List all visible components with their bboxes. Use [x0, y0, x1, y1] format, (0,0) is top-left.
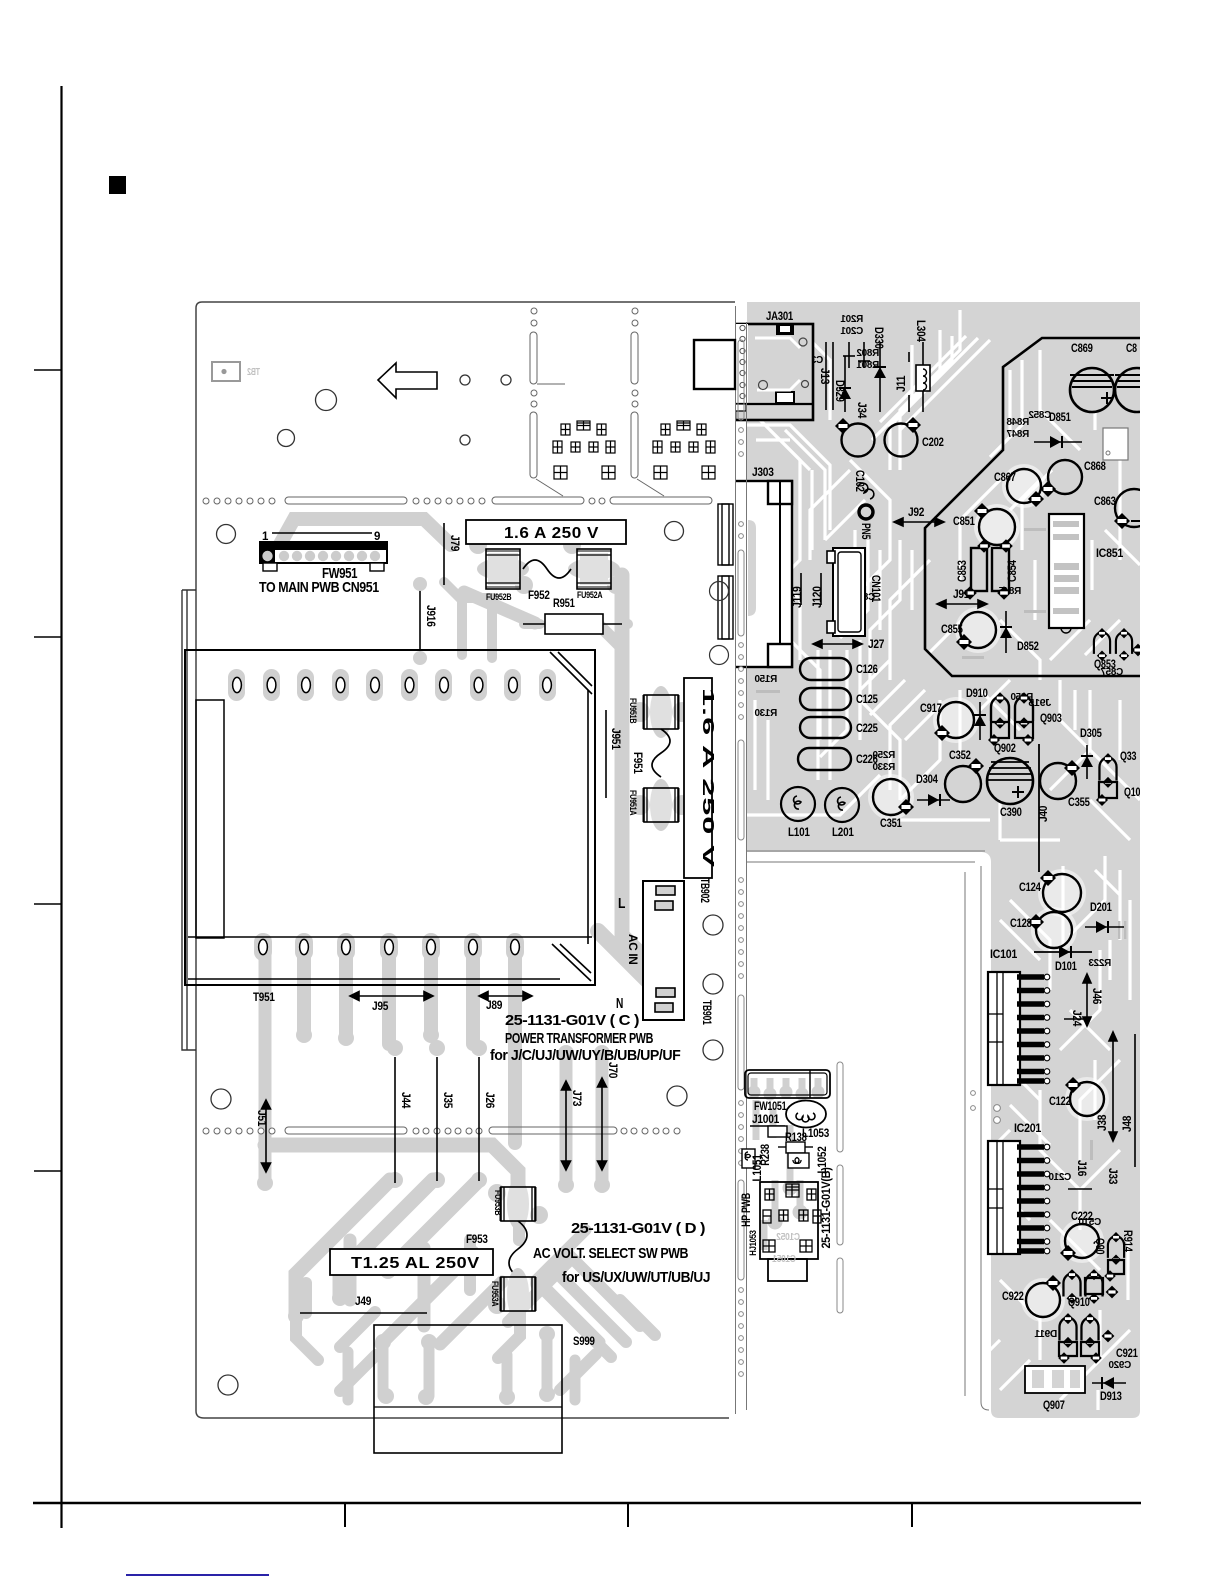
- svg-text:Q33: Q33: [1120, 751, 1136, 763]
- svg-text:J27: J27: [868, 639, 884, 651]
- svg-text:C855: C855: [941, 624, 963, 636]
- J13 leads: [825, 342, 827, 410]
- white routing channels on pour (approximation): [747, 310, 1140, 1410]
- svg-text:POWER TRANSFORMER PWB: POWER TRANSFORMER PWB: [505, 1030, 653, 1047]
- svg-text:J70: J70: [606, 1062, 618, 1078]
- fuse clip FU953B: [500, 1178, 536, 1230]
- svg-text:J11: J11: [896, 375, 908, 392]
- svg-text:F951: F951: [631, 752, 643, 774]
- fuse clip FU951B: [643, 686, 679, 738]
- svg-text:C126: C126: [856, 664, 878, 676]
- J46 arrow: [1083, 974, 1091, 1026]
- svg-text:C201: C201: [840, 326, 863, 337]
- transformer pad halos: [228, 669, 556, 961]
- svg-text:F953: F953: [466, 1234, 488, 1246]
- C128: [1036, 912, 1072, 948]
- Q853 transistors: [1094, 628, 1110, 661]
- D852: [1005, 611, 1007, 653]
- R238: [786, 1142, 805, 1153]
- C351: [873, 779, 909, 815]
- Q909 cluster: [1059, 1313, 1076, 1348]
- svg-text:C852: C852: [1028, 410, 1051, 421]
- arrow J70: [598, 1078, 607, 1170]
- svg-text:L201: L201: [832, 827, 854, 839]
- transformer pads bottom row: [259, 939, 268, 954]
- svg-text:1: 1: [262, 531, 269, 543]
- J40 line: [1038, 744, 1040, 872]
- svg-text:PN5: PN5: [859, 523, 871, 540]
- TB2 marker box: [212, 362, 240, 381]
- svg-text:Q902: Q902: [994, 743, 1016, 755]
- svg-text:1.6 A 250 V: 1.6 A 250 V: [504, 525, 599, 542]
- svg-text:C390: C390: [1000, 807, 1022, 819]
- HJ1053 headphone jack: [760, 1182, 818, 1259]
- S999 switch: [374, 1325, 562, 1453]
- svg-text:J120: J120: [812, 586, 824, 608]
- J44 J35 J26: [394, 1057, 396, 1183]
- direction arrow: [378, 363, 437, 398]
- L1052: [788, 1153, 809, 1168]
- svg-text:FU951A: FU951A: [628, 790, 638, 816]
- svg-text:J38: J38: [1097, 1114, 1109, 1131]
- svg-text:R130: R130: [754, 708, 777, 719]
- svg-text:J34: J34: [855, 402, 867, 419]
- fuse rating box 1.6A 250V: [466, 520, 626, 544]
- svg-text:C226: C226: [856, 754, 878, 766]
- svg-text:C1052: C1052: [776, 1232, 800, 1243]
- svg-text:FU953A: FU953A: [490, 1281, 500, 1307]
- V-cut perforation rows/columns on left board: [203, 308, 680, 1134]
- crop-mark: left vertical rule: [60, 86, 62, 1528]
- jack slots near J303: [718, 504, 733, 639]
- svg-text:TB902: TB902: [698, 878, 710, 903]
- svg-text:C853: C853: [957, 560, 969, 582]
- C868: [1048, 460, 1082, 494]
- svg-text:Q910: Q910: [1068, 1297, 1090, 1309]
- L1051: [742, 1149, 755, 1168]
- J73 J70 arrows: [562, 1081, 571, 1170]
- Q902 Q903 transistor clusters: [991, 692, 1009, 729]
- C851: [979, 509, 1015, 545]
- svg-text:JA301: JA301: [766, 311, 794, 323]
- svg-text:J48: J48: [1122, 1115, 1134, 1132]
- J119 J120: [800, 573, 802, 605]
- Q33x Q10x: [1099, 753, 1116, 788]
- Q906 cluster: [1108, 1232, 1124, 1265]
- svg-text:C128: C128: [1010, 918, 1032, 930]
- svg-text:D913: D913: [1100, 1391, 1122, 1403]
- inductor L201: [825, 788, 859, 822]
- svg-text:D910: D910: [966, 688, 988, 700]
- svg-text:25-1131-G01V(B): 25-1131-G01V(B): [821, 1167, 833, 1249]
- gray traces on left board: [265, 519, 655, 1400]
- C853 / C854: [971, 548, 987, 591]
- AC IN terminal block: [643, 881, 684, 1020]
- svg-text:J79: J79: [448, 535, 460, 551]
- SMD IC white square: [1103, 428, 1128, 460]
- svg-text:C851: C851: [953, 516, 975, 528]
- transformer pads top row: [233, 677, 242, 692]
- C867: [1007, 469, 1041, 503]
- connector CN101: [827, 548, 865, 636]
- J51 arrow: [262, 1100, 271, 1172]
- svg-text:D305: D305: [1080, 728, 1102, 740]
- svg-text:J951: J951: [609, 728, 621, 750]
- svg-text:IC851: IC851: [1096, 548, 1124, 560]
- svg-text:Q907: Q907: [1043, 1400, 1065, 1412]
- D913: [1092, 1382, 1126, 1384]
- svg-text:25-1131-G01V ( C ): 25-1131-G01V ( C ): [505, 1012, 639, 1029]
- free circles on left board: [211, 375, 723, 1395]
- svg-text:C869: C869: [1071, 343, 1093, 355]
- RCA jack on left board (top): [694, 340, 735, 389]
- svg-text:J33: J33: [1106, 1168, 1118, 1184]
- R138: [768, 1126, 787, 1137]
- svg-text:C854: C854: [1007, 560, 1019, 582]
- svg-text:J916: J916: [424, 605, 436, 627]
- svg-text:C1051: C1051: [772, 1254, 796, 1265]
- J916: [419, 588, 421, 652]
- svg-text:HP PWB: HP PWB: [741, 1193, 753, 1227]
- svg-text:D330: D330: [872, 327, 884, 349]
- svg-text:R201: R201: [840, 314, 863, 325]
- left protrusion tab: [182, 590, 196, 1050]
- svg-text:AC IN: AC IN: [626, 934, 638, 965]
- svg-text:D101: D101: [1055, 961, 1077, 973]
- transformer T951: [185, 650, 595, 985]
- svg-text:L101: L101: [788, 827, 810, 839]
- solder pad clusters: [553, 421, 715, 479]
- FW1051 connector: [745, 1070, 830, 1098]
- svg-text:C355: C355: [1068, 797, 1090, 809]
- node J120 lead: [820, 573, 822, 605]
- svg-text:for US/UX/UW/UT/UB/UJ: for US/UX/UW/UT/UB/UJ: [562, 1269, 710, 1286]
- svg-text:R848: R848: [1006, 417, 1029, 428]
- connector JA301: [735, 324, 813, 420]
- svg-text:J91: J91: [953, 589, 970, 601]
- node J26 lead: [478, 1057, 480, 1181]
- node J35 lead: [436, 1057, 438, 1181]
- svg-text:1.6 A 250 V: 1.6 A 250 V: [699, 688, 716, 868]
- svg-text:C867: C867: [994, 472, 1016, 484]
- svg-text:Q90: Q90: [1093, 1238, 1105, 1254]
- J79: [443, 523, 445, 585]
- black square marker: [109, 176, 126, 194]
- svg-text:R150: R150: [754, 674, 777, 685]
- svg-text:T1.25 AL 250V: T1.25 AL 250V: [351, 1255, 480, 1272]
- Q907: [1025, 1366, 1085, 1393]
- svg-text:J26: J26: [483, 1092, 495, 1108]
- svg-text:J40: J40: [1038, 806, 1050, 822]
- svg-text:C124: C124: [1019, 882, 1041, 894]
- svg-text:R951: R951: [553, 598, 575, 610]
- svg-text:C210: C210: [1048, 1172, 1071, 1183]
- L1053: [786, 1101, 826, 1128]
- svg-text:R847: R847: [1006, 429, 1029, 440]
- C355: [1040, 763, 1076, 799]
- svg-text:C868: C868: [1084, 461, 1106, 473]
- svg-text:D201: D201: [1090, 902, 1112, 914]
- svg-text:TB2: TB2: [247, 367, 260, 378]
- svg-text:C921: C921: [1116, 1348, 1138, 1360]
- svg-text:J92: J92: [908, 507, 924, 519]
- C124: [1043, 874, 1081, 912]
- svg-text:D852: D852: [1017, 641, 1039, 653]
- C390 electrolytic: [987, 758, 1033, 804]
- svg-text:R223: R223: [1088, 958, 1111, 969]
- svg-text:J46: J46: [1090, 988, 1102, 1004]
- svg-text:Q10: Q10: [1124, 787, 1140, 799]
- svg-text:J73: J73: [570, 1090, 582, 1106]
- fuse clip FU952A: [568, 549, 620, 589]
- svg-text:HJ1053: HJ1053: [748, 1230, 758, 1256]
- shield outline polyline: [925, 338, 1140, 676]
- bottom rule: [33, 1502, 1141, 1505]
- svg-text:C102: C102: [853, 470, 865, 492]
- svg-text:L304: L304: [914, 320, 926, 342]
- svg-text:D304: D304: [916, 774, 938, 786]
- svg-text:TB901: TB901: [700, 1000, 712, 1025]
- svg-text:FU952B: FU952B: [486, 592, 512, 602]
- gray blobs at fuse clips / AC IN: [469, 536, 692, 1314]
- gray traces: [748, 1078, 824, 1250]
- svg-text:J35: J35: [441, 1092, 453, 1109]
- svg-text:IC101: IC101: [990, 949, 1018, 961]
- T1.25 rating box: [330, 1249, 493, 1275]
- svg-text:C225: C225: [856, 723, 878, 735]
- svg-text:R138: R138: [785, 1132, 807, 1144]
- svg-text:9: 9: [374, 531, 380, 543]
- svg-text:F952: F952: [528, 590, 550, 602]
- J38 J48: [1109, 1032, 1117, 1141]
- Q910 cluster: [1063, 1269, 1080, 1304]
- capacitor C202: [885, 424, 918, 457]
- ground pour polygon: [747, 302, 1140, 1418]
- svg-text:C122: C122: [1049, 1096, 1071, 1108]
- J951: [605, 710, 607, 798]
- svg-text:D851: D851: [1049, 412, 1071, 424]
- svg-text:J1001: J1001: [752, 1114, 780, 1126]
- capacitor C854: [992, 548, 1009, 591]
- svg-text:J89: J89: [486, 1000, 502, 1012]
- svg-text:N: N: [616, 995, 623, 1012]
- svg-text:for J/C/UJ/UW/UY/B/UB/UP/UF: for J/C/UJ/UW/UY/B/UB/UP/UF: [490, 1047, 681, 1064]
- svg-text:J95: J95: [372, 1001, 389, 1013]
- svg-text:J13: J13: [818, 368, 830, 384]
- fuse clip FU953A: [500, 1268, 536, 1320]
- connector J303: [734, 481, 792, 667]
- C122: [1070, 1082, 1104, 1116]
- svg-text:Q903: Q903: [1040, 713, 1062, 725]
- vertical fuse rating box: [684, 678, 712, 878]
- svg-text:C351: C351: [880, 818, 902, 830]
- fuse clip FU951A: [643, 779, 679, 831]
- svg-text:J44: J44: [399, 1092, 411, 1109]
- svg-text:CN101: CN101: [869, 575, 881, 603]
- gray pads: [257, 996, 659, 1405]
- svg-text:C125: C125: [856, 694, 878, 706]
- svg-text:T951: T951: [253, 992, 275, 1004]
- svg-text:FU952A: FU952A: [577, 590, 603, 600]
- svg-text:IC201: IC201: [1014, 1123, 1042, 1135]
- svg-text:D911: D911: [1034, 1329, 1057, 1340]
- svg-text:C863: C863: [1094, 496, 1116, 508]
- C855: [960, 612, 996, 648]
- svg-text:25-1131-G01V ( D ): 25-1131-G01V ( D ): [571, 1220, 705, 1237]
- C863: [1115, 489, 1153, 527]
- arrow J89: [479, 992, 532, 1001]
- crop-mark ticks left: [34, 369, 61, 371]
- D101: [1034, 951, 1092, 953]
- svg-text:J119: J119: [792, 586, 804, 608]
- J95 / J89 arrows: [350, 992, 433, 1001]
- svg-text:J51: J51: [255, 1110, 267, 1127]
- white patches around component islands: [868, 464, 1109, 1322]
- svg-text:R802: R802: [856, 348, 879, 359]
- PN5 ferrite bead: [859, 505, 873, 519]
- svg-text:L: L: [618, 895, 625, 912]
- C201 cap circle (unlabeled): [842, 424, 875, 457]
- svg-text:C202: C202: [922, 437, 944, 449]
- svg-text:AC VOLT. SELECT SW PWB: AC VOLT. SELECT SW PWB: [533, 1245, 689, 1262]
- L101 L201: [781, 787, 815, 821]
- board outline: [196, 302, 735, 1418]
- svg-text:Q853: Q853: [1094, 659, 1116, 671]
- faint mirrored silkscreen on pour: [754, 314, 1131, 1371]
- stadium caps C126 C125 C225 C226: [798, 658, 851, 770]
- svg-text:J16: J16: [1075, 1160, 1087, 1176]
- connector FW951: [260, 533, 387, 571]
- svg-text:C352: C352: [949, 750, 971, 762]
- svg-text:C920: C920: [1108, 1360, 1131, 1371]
- svg-text:FW1051: FW1051: [754, 1101, 787, 1113]
- svg-text:S999: S999: [573, 1336, 595, 1348]
- RCA jack pins crossing gap: [720, 339, 735, 342]
- svg-text:C922: C922: [1002, 1291, 1024, 1303]
- blue link underline: [126, 1574, 269, 1576]
- svg-text:FU951B: FU951B: [628, 698, 638, 724]
- fuse clip FU952B: [477, 549, 529, 589]
- svg-text:L1051: L1051: [752, 1154, 764, 1182]
- svg-text:C222: C222: [1071, 1211, 1093, 1223]
- IC851: [1049, 514, 1084, 628]
- svg-text:TO MAIN PWB CN951: TO MAIN PWB CN951: [259, 579, 379, 596]
- svg-text:J49: J49: [355, 1296, 371, 1308]
- svg-text:C8: C8: [1126, 343, 1137, 355]
- svg-text:J303: J303: [752, 467, 774, 479]
